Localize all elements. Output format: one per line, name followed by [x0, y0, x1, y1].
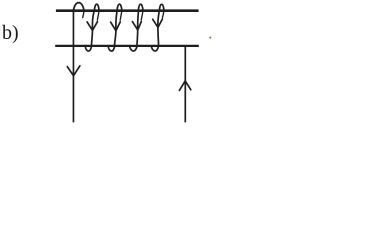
turn T2 arrowhead left barb — [111, 22, 116, 30]
arrowhead right lead (current up) — [179, 81, 190, 91]
turn T1 back-strand stub — [97, 11, 99, 20]
turn T3 back-strand stub — [141, 11, 143, 20]
turn T4 top bump — [159, 4, 164, 11]
wire right lead — [184, 46, 186, 122]
turn T4 arrowhead left barb — [153, 19, 158, 27]
turn T2 top bump — [117, 4, 122, 11]
turn T3 front strand with loop — [130, 10, 139, 51]
top rail of core — [56, 9, 199, 12]
bottom rail of core — [55, 45, 199, 47]
turn T4 arrowhead right barb — [158, 19, 162, 27]
turn T1 arrowhead left barb — [87, 22, 92, 30]
turn T2 arrowhead right barb — [116, 22, 120, 31]
turn T2 front strand with loop — [108, 10, 117, 51]
arrowhead left lead (current down) — [67, 66, 80, 76]
turn T3 arrowhead left barb — [132, 22, 137, 30]
turn T1 front strand with loop — [85, 10, 94, 51]
turn T3 top bump — [138, 4, 143, 11]
coil end arc A0 hidden-side stub — [83, 11, 84, 18]
turn T4 back-strand stub — [162, 11, 164, 18]
turn T1 top bump — [94, 4, 99, 11]
turn T4 front strand with loop — [151, 10, 159, 51]
label b) — [2, 22, 19, 45]
turn T1 arrowhead right barb — [93, 22, 98, 30]
turn T3 arrowhead right barb — [138, 21, 141, 29]
wire left lead — [72, 10, 74, 122]
turn T2 back-strand stub — [120, 11, 122, 20]
coil end arc A0 — [73, 3, 84, 12]
stray orange dot — [209, 37, 211, 39]
